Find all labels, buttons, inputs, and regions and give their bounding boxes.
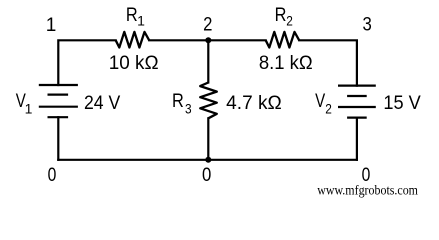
wire bottom rail	[58, 159, 357, 161]
wire V1 bottom to bottom rail	[57, 117, 59, 160]
svg-text:15 V: 15 V	[383, 93, 421, 114]
battery V2 plate long top	[338, 84, 376, 86]
svg-text:2: 2	[325, 100, 332, 116]
svg-text:V: V	[315, 91, 325, 112]
resistor R2	[266, 32, 300, 48]
resistor R1	[116, 32, 150, 48]
wire V2 bottom to bottom rail	[356, 118, 358, 160]
svg-text:R: R	[172, 91, 184, 112]
wire top-right corner: R2 to V2 top	[299, 40, 357, 85]
svg-text:10 kΩ: 10 kΩ	[109, 53, 159, 74]
svg-text:0: 0	[202, 165, 211, 186]
svg-text:1: 1	[46, 15, 57, 36]
svg-text:0: 0	[48, 165, 57, 186]
battery V2 plate short bottom	[347, 116, 367, 118]
wire R3 bottom stub to bottom rail	[207, 118, 209, 160]
svg-text:4.7 kΩ: 4.7 kΩ	[226, 93, 282, 114]
svg-text:24 V: 24 V	[84, 93, 121, 114]
battery V2 plate short	[347, 95, 367, 97]
svg-text:3: 3	[185, 100, 192, 116]
battery V1 plate long top	[39, 84, 78, 86]
battery V1 plate long	[39, 106, 78, 108]
svg-text:R: R	[275, 5, 287, 26]
svg-text:2: 2	[286, 12, 293, 28]
svg-text:1: 1	[137, 12, 145, 28]
battery V1 plate short bottom	[48, 116, 69, 118]
svg-text:3: 3	[363, 15, 372, 36]
svg-text:8.1 kΩ: 8.1 kΩ	[259, 53, 313, 74]
node 0 junction dot (bottom)	[205, 157, 211, 163]
svg-text:1: 1	[25, 100, 33, 116]
wire top-left corner: node 1 rail to V1 top	[58, 40, 115, 85]
node 2 junction dot	[205, 37, 211, 43]
svg-text:R: R	[126, 5, 138, 26]
svg-text:www.mfgrobots.com: www.mfgrobots.com	[317, 183, 418, 198]
wire R3 top stub from node 2	[207, 40, 209, 82]
wire top middle: R1 to R2 through node 2	[149, 39, 266, 41]
svg-text:2: 2	[203, 15, 212, 36]
battery V2 plate long	[338, 106, 376, 108]
resistor R3	[200, 83, 217, 119]
battery V1 plate short	[48, 93, 69, 95]
